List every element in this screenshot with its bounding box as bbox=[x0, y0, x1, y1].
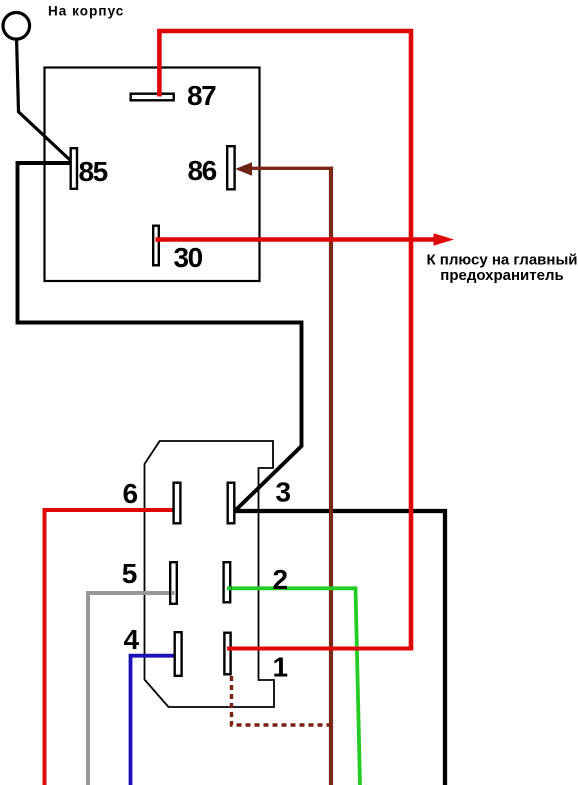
wire red stub into pin 87 bbox=[157, 92, 162, 97]
wire red main: pin 87 top loop down to pin 1 bbox=[159, 31, 411, 649]
connector pin 5 bbox=[170, 562, 177, 604]
svg-text:На корпус: На корпус bbox=[48, 4, 124, 19]
wire red pin1 horizontal bbox=[232, 647, 414, 651]
wire gray stub into pin 5 bbox=[171, 591, 175, 595]
arrowhead red to fuse bbox=[434, 233, 455, 246]
ground terminal circle bbox=[3, 12, 30, 39]
wire pin85 to connector pin3 (black) bbox=[18, 163, 302, 511]
connector body outline bbox=[145, 441, 275, 707]
relay body bbox=[45, 68, 260, 282]
svg-text:30: 30 bbox=[174, 242, 203, 273]
svg-text:К плюсу на главный: К плюсу на главный bbox=[426, 251, 577, 268]
wire brown to pin 86 (horizontal) bbox=[250, 167, 333, 170]
wire dashed maroon from pin 1 bbox=[232, 676, 332, 725]
connector pin 3 bbox=[228, 483, 235, 524]
svg-text:87: 87 bbox=[187, 80, 216, 111]
relay pin 87 bbox=[131, 94, 174, 101]
wire red from pin 30 to fuse arrow bbox=[157, 237, 435, 242]
svg-text:3: 3 bbox=[276, 477, 292, 508]
relay pin 85 bbox=[71, 148, 77, 189]
wire green stub into pin 2 bbox=[227, 586, 231, 590]
wire ground stem to pin 85 bbox=[17, 41, 70, 161]
svg-text:85: 85 bbox=[79, 156, 108, 187]
connector pin 1 bbox=[224, 633, 230, 675]
svg-text:5: 5 bbox=[122, 558, 138, 589]
wire green from pin 2 bbox=[229, 588, 360, 785]
arrowhead brown at pin 86 bbox=[237, 163, 252, 175]
wire red stub into pin 1 bbox=[227, 647, 233, 651]
svg-text:1: 1 bbox=[273, 652, 289, 683]
wire red stub into pin 30 bbox=[156, 237, 162, 242]
wire blue to pin 4 bbox=[131, 656, 177, 785]
wire gray to pin 5 bbox=[88, 593, 173, 785]
wire brown to pin 86 (vertical) bbox=[329, 167, 333, 785]
svg-text:6: 6 bbox=[123, 478, 139, 509]
connector pin 6 bbox=[174, 483, 181, 524]
wire red to pin 6 bbox=[45, 510, 175, 785]
relay pin 30 bbox=[153, 226, 159, 266]
connector pin 4 bbox=[175, 632, 182, 676]
svg-text:2: 2 bbox=[273, 564, 289, 595]
connector pin 2 bbox=[224, 562, 231, 602]
relay pin 86 bbox=[227, 146, 234, 189]
svg-text:предохранитель: предохранитель bbox=[440, 267, 563, 284]
svg-text:86: 86 bbox=[188, 155, 217, 186]
wire connector pin3 right branch (black) bbox=[235, 511, 445, 785]
svg-text:4: 4 bbox=[124, 624, 140, 655]
